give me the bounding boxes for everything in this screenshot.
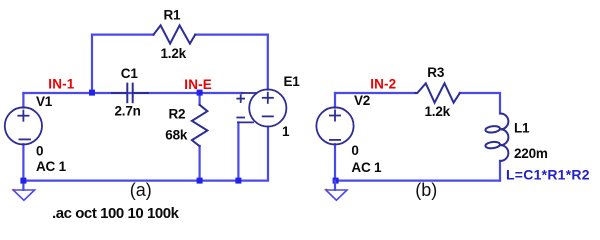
svg-text:V1: V1 <box>36 94 53 109</box>
junction IN-1 <box>89 90 95 96</box>
svg-text:.ac oct 100 10 100k: .ac oct 100 10 100k <box>52 205 180 222</box>
junction IN-E <box>197 90 203 96</box>
wire bottom rail of circuit b <box>335 180 500 182</box>
resistor R3 <box>416 83 460 102</box>
svg-text:0: 0 <box>351 143 358 158</box>
voltage source V1 <box>5 107 42 144</box>
svg-text:R3: R3 <box>427 65 445 80</box>
svg-text:(b): (b) <box>415 180 437 200</box>
voltage source V2 <box>316 107 353 144</box>
inductor L1 <box>485 114 508 161</box>
artifact dot ground b <box>326 189 328 191</box>
wire E1 minus control down <box>237 122 239 180</box>
junction V2 ground <box>333 178 339 184</box>
svg-text:L1: L1 <box>514 121 530 136</box>
wire R1 top right segment <box>195 33 268 35</box>
svg-text:(a): (a) <box>130 180 152 200</box>
svg-text:1.2k: 1.2k <box>425 104 451 119</box>
wire V1 bottom stub <box>22 144 24 180</box>
svg-text:C1: C1 <box>121 66 139 81</box>
svg-text:AC 1: AC 1 <box>36 159 67 174</box>
ground under V2 <box>326 181 347 201</box>
wire V1 top stub <box>22 93 24 108</box>
wire IN-2 node horizontal <box>335 92 416 94</box>
svg-text:2.7n: 2.7n <box>115 104 141 119</box>
svg-text:R2: R2 <box>169 106 186 121</box>
svg-text:IN-1: IN-1 <box>48 77 74 92</box>
resistor R1 <box>154 25 196 43</box>
junction R2 bottom <box>197 178 203 184</box>
wire R3 to L1 corner <box>460 93 500 114</box>
svg-text:E1: E1 <box>284 74 301 89</box>
svg-text:R1: R1 <box>164 8 182 23</box>
junction V1 ground <box>20 178 26 184</box>
svg-text:68k: 68k <box>165 128 188 143</box>
wire E1 top pin vertical <box>267 35 269 90</box>
junction E1 control bottom <box>235 178 241 184</box>
svg-text:1: 1 <box>282 124 290 139</box>
wire L1 bottom <box>499 161 501 181</box>
wire R1 feedback left vertical <box>91 35 93 93</box>
artifact dot ground a <box>13 189 15 191</box>
svg-text:1.2k: 1.2k <box>161 46 187 61</box>
dependent source E1 <box>237 89 286 126</box>
wire R1 top left segment <box>92 33 154 35</box>
svg-text:0: 0 <box>36 144 43 159</box>
svg-text:IN-2: IN-2 <box>370 77 396 92</box>
ground under V1 <box>13 181 34 201</box>
svg-text:AC 1: AC 1 <box>351 160 382 175</box>
wire R2 bottom lead <box>199 146 201 181</box>
wire top node IN-1 horizontal to E1 plus pin <box>23 92 242 94</box>
resistor R2 <box>192 105 208 146</box>
svg-text:220m: 220m <box>514 146 548 161</box>
svg-text:V2: V2 <box>354 93 370 108</box>
wire R2 top lead <box>199 93 201 105</box>
wire bottom rail of circuit a with E1 output <box>23 127 268 181</box>
capacitor C1 <box>112 84 148 103</box>
wire V2 bottom stub <box>334 144 336 180</box>
wire V2 top stub <box>334 93 336 108</box>
svg-text:L=C1*R1*R2: L=C1*R1*R2 <box>506 167 590 183</box>
